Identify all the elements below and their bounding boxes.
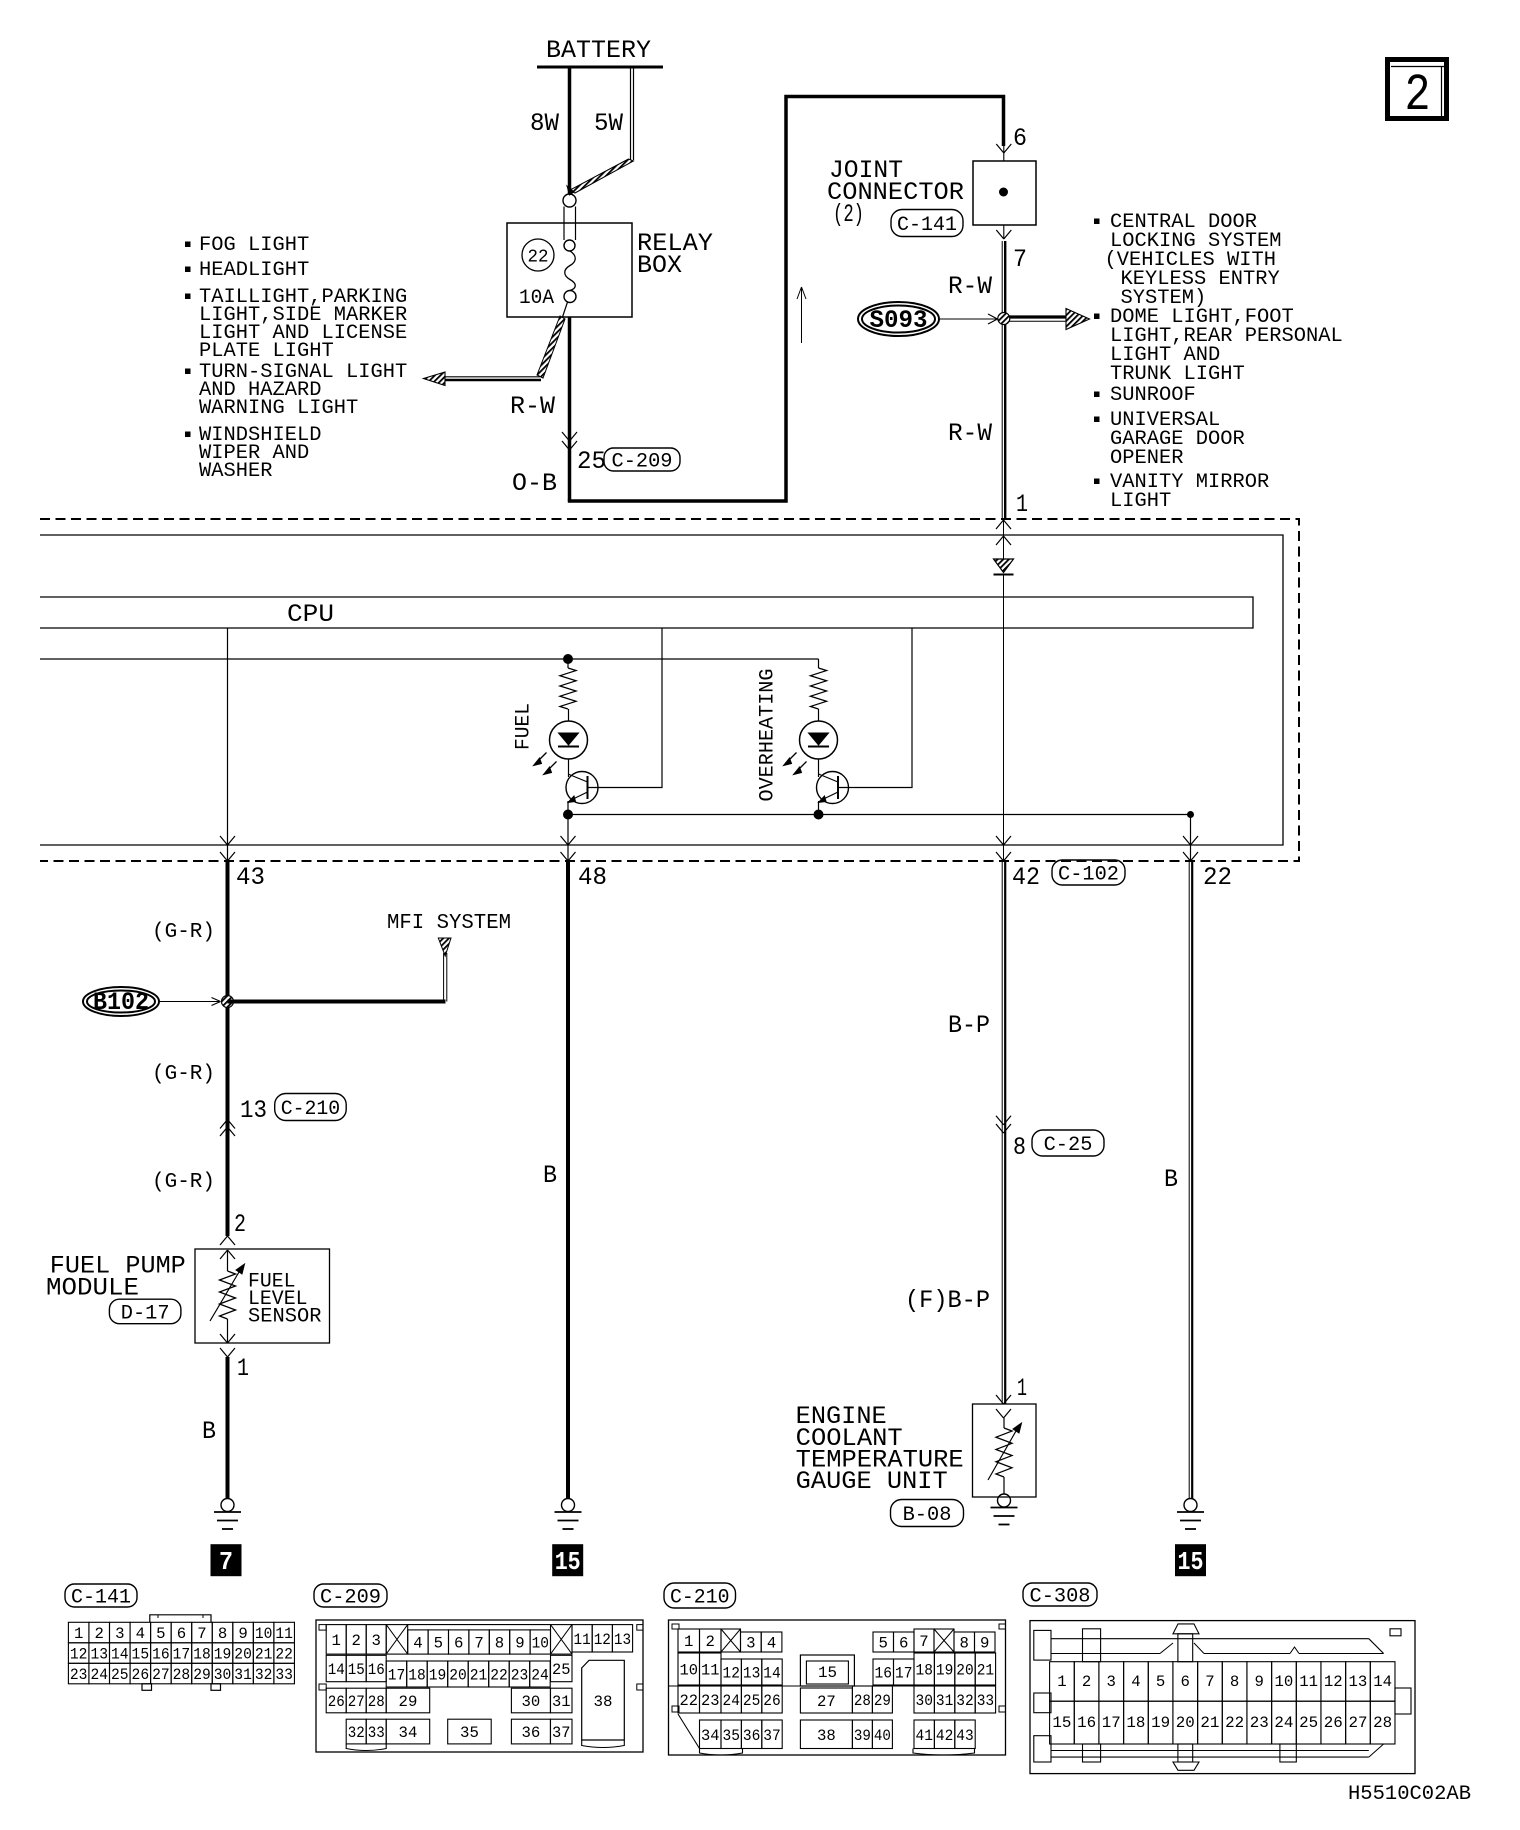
svg-text:R-W: R-W	[948, 419, 992, 448]
wire pin42 inside module	[996, 597, 1011, 861]
svg-text:7: 7	[474, 1635, 483, 1653]
svg-text:25: 25	[552, 1661, 571, 1679]
svg-text:7: 7	[219, 1547, 233, 1577]
svg-text:24: 24	[531, 1667, 549, 1685]
junction node G-R	[222, 996, 234, 1008]
svg-text:27: 27	[817, 1693, 836, 1711]
svg-text:23: 23	[1250, 1714, 1269, 1732]
joint connector labels	[827, 156, 964, 237]
svg-text:33: 33	[977, 1692, 994, 1710]
svg-text:17: 17	[895, 1665, 913, 1683]
svg-text:3: 3	[372, 1632, 381, 1650]
svg-text:GAUGE UNIT: GAUGE UNIT	[796, 1467, 948, 1496]
relay box	[507, 223, 713, 317]
arrow to lighting circuits	[424, 316, 566, 386]
svg-text:18: 18	[193, 1646, 211, 1664]
wire 5W from battery	[567, 69, 634, 196]
wire pin43 inside module	[220, 628, 235, 861]
inline connector 25 C-209	[562, 432, 680, 476]
svg-text:12: 12	[594, 1631, 611, 1649]
OVERHEATING label	[757, 669, 780, 802]
svg-text:22: 22	[275, 1646, 293, 1664]
svg-text:SUNROOF: SUNROOF	[1110, 384, 1196, 407]
FUEL label	[513, 703, 536, 750]
pin 6	[996, 124, 1027, 153]
svg-text:34: 34	[701, 1727, 720, 1745]
svg-text:30: 30	[522, 1693, 541, 1711]
svg-text:36: 36	[743, 1727, 760, 1745]
pin 43	[236, 863, 265, 892]
svg-text:27: 27	[152, 1666, 170, 1684]
svg-text:3: 3	[115, 1625, 124, 1643]
wire G-R pin43 to fuel pump	[152, 861, 228, 1236]
svg-text:35: 35	[723, 1727, 740, 1745]
svg-text:35: 35	[460, 1724, 479, 1742]
svg-text:16: 16	[875, 1665, 893, 1683]
svg-text:13: 13	[743, 1665, 760, 1683]
svg-text:1: 1	[1016, 490, 1028, 519]
svg-text:WASHER: WASHER	[199, 460, 273, 483]
ground fuel pump	[214, 1499, 241, 1530]
svg-text:B: B	[202, 1417, 216, 1446]
svg-text:10: 10	[680, 1662, 699, 1680]
svg-text:BOX: BOX	[637, 251, 682, 280]
svg-text:27: 27	[1348, 1714, 1367, 1732]
svg-text:C-209: C-209	[612, 451, 673, 474]
svg-text:10: 10	[1275, 1673, 1294, 1691]
left load list	[186, 234, 408, 483]
svg-text:HEADLIGHT: HEADLIGHT	[199, 259, 309, 282]
svg-text:30: 30	[214, 1666, 232, 1684]
svg-text:C-308: C-308	[1030, 1586, 1091, 1609]
svg-text:23: 23	[70, 1666, 88, 1684]
svg-text:C-102: C-102	[1058, 864, 1119, 887]
svg-text:18: 18	[916, 1662, 933, 1680]
overheating LED indicator	[784, 709, 838, 775]
svg-text:41: 41	[916, 1727, 933, 1745]
svg-text:15: 15	[555, 1547, 581, 1577]
wire B-P pin42 down	[905, 861, 1005, 1404]
svg-text:11: 11	[1299, 1673, 1318, 1691]
svg-text:31: 31	[936, 1692, 953, 1710]
svg-text:R-W: R-W	[510, 392, 555, 421]
svg-text:12: 12	[723, 1665, 740, 1683]
svg-text:13: 13	[614, 1631, 631, 1649]
svg-text:12: 12	[1324, 1673, 1343, 1691]
svg-text:20: 20	[956, 1662, 973, 1680]
overheating resistor	[811, 659, 827, 709]
wire CPU to fuel transistor base	[588, 628, 663, 788]
diagram code	[1348, 1783, 1471, 1806]
battery	[537, 36, 663, 67]
svg-text:8: 8	[495, 1635, 504, 1653]
svg-text:19: 19	[1151, 1714, 1170, 1732]
pin 1 gauge unit	[1017, 1374, 1027, 1403]
ground ref 7	[211, 1545, 241, 1578]
svg-text:25: 25	[743, 1692, 760, 1710]
engine coolant temperature gauge unit box	[796, 1395, 1036, 1527]
svg-text:31: 31	[234, 1666, 252, 1684]
svg-text:20: 20	[1176, 1714, 1195, 1732]
svg-text:15: 15	[348, 1661, 365, 1679]
svg-text:17: 17	[388, 1667, 406, 1685]
svg-text:4: 4	[1131, 1673, 1140, 1691]
splice B102	[83, 987, 159, 1017]
svg-text:8: 8	[1230, 1673, 1239, 1691]
inline connector 8 C-25	[996, 1116, 1104, 1162]
wire R-W joint connector down	[948, 241, 1005, 314]
svg-text:2: 2	[234, 1210, 246, 1239]
svg-text:43: 43	[236, 863, 265, 892]
ground gauge unit	[991, 1494, 1018, 1525]
svg-text:5W: 5W	[594, 109, 623, 138]
svg-text:2: 2	[1082, 1673, 1091, 1691]
page number box 2	[1388, 60, 1447, 126]
svg-text:23: 23	[701, 1692, 720, 1710]
inline connector 13 C-210	[220, 1094, 346, 1137]
svg-text:H5510C02AB: H5510C02AB	[1348, 1783, 1471, 1806]
svg-text:1: 1	[1017, 1374, 1027, 1403]
wire 8W from battery	[530, 69, 570, 195]
svg-text:24: 24	[1274, 1714, 1293, 1732]
svg-text:38: 38	[817, 1727, 836, 1745]
svg-text:8: 8	[218, 1625, 227, 1643]
svg-text:B: B	[1164, 1165, 1178, 1194]
svg-text:15: 15	[132, 1646, 150, 1664]
wire emitter bus	[568, 814, 1191, 816]
wire R-W fuse down	[510, 317, 570, 501]
svg-text:O-B: O-B	[512, 469, 557, 498]
svg-text:WARNING LIGHT: WARNING LIGHT	[199, 397, 358, 420]
svg-text:22: 22	[1203, 863, 1232, 892]
svg-text:25: 25	[577, 447, 606, 476]
svg-text:34: 34	[399, 1724, 418, 1742]
svg-text:6: 6	[1013, 124, 1027, 153]
fuel LED indicator	[534, 709, 588, 775]
svg-text:14: 14	[1373, 1673, 1392, 1691]
svg-text:22: 22	[1225, 1714, 1244, 1732]
svg-text:15: 15	[1178, 1547, 1204, 1577]
svg-text:2: 2	[1405, 66, 1431, 125]
svg-text:2: 2	[352, 1632, 361, 1650]
svg-text:21: 21	[977, 1662, 994, 1680]
fuel driver transistor	[566, 759, 598, 815]
svg-text:20: 20	[449, 1667, 467, 1685]
svg-text:32: 32	[255, 1666, 273, 1684]
junction node bus corner	[1188, 812, 1194, 818]
svg-text:1: 1	[74, 1625, 83, 1643]
pin 7	[996, 225, 1027, 274]
svg-text:19: 19	[936, 1662, 953, 1680]
svg-text:MODULE: MODULE	[46, 1274, 139, 1303]
svg-text:7: 7	[1013, 245, 1027, 274]
pin 1 fuel pump	[237, 1354, 249, 1383]
ground pin22	[1177, 1499, 1204, 1530]
svg-text:28: 28	[173, 1666, 191, 1684]
diode symbol on R-W feed	[994, 519, 1014, 597]
svg-text:10: 10	[532, 1635, 549, 1653]
svg-text:D-17: D-17	[121, 1302, 170, 1325]
svg-text:10: 10	[255, 1625, 273, 1643]
svg-text:15: 15	[1052, 1714, 1071, 1732]
svg-text:16: 16	[152, 1646, 170, 1664]
pin 42 C-102	[1012, 860, 1125, 892]
svg-text:B-P: B-P	[948, 1011, 990, 1040]
svg-text:18: 18	[1126, 1714, 1145, 1732]
svg-text:36: 36	[522, 1724, 541, 1742]
svg-text:9: 9	[238, 1625, 247, 1643]
svg-text:(G-R): (G-R)	[152, 921, 215, 944]
svg-text:11: 11	[275, 1625, 293, 1643]
wire pin48 inside module	[561, 819, 576, 861]
svg-text:6: 6	[454, 1635, 463, 1653]
junction node R-W	[998, 313, 1010, 325]
svg-text:B-08: B-08	[903, 1504, 952, 1527]
svg-text:28: 28	[1373, 1714, 1392, 1732]
svg-text:LIGHT: LIGHT	[1110, 490, 1171, 513]
svg-text:9: 9	[515, 1635, 524, 1653]
pin 2 fuel pump	[234, 1210, 246, 1239]
svg-text:37: 37	[552, 1724, 571, 1742]
svg-text:13: 13	[1349, 1673, 1368, 1691]
svg-text:4: 4	[413, 1635, 422, 1653]
svg-text:9: 9	[1255, 1673, 1264, 1691]
fuel level sensor	[210, 1250, 322, 1357]
svg-text:14: 14	[763, 1665, 780, 1683]
wire B fuel pump to ground	[202, 1357, 228, 1499]
svg-text:33: 33	[275, 1666, 293, 1684]
svg-text:C-141: C-141	[897, 214, 957, 237]
svg-text:32: 32	[348, 1724, 365, 1742]
svg-text:8W: 8W	[530, 109, 559, 138]
svg-text:6: 6	[1181, 1673, 1190, 1691]
svg-text:FUEL: FUEL	[513, 703, 536, 750]
svg-text:17: 17	[173, 1646, 191, 1664]
svg-text:7: 7	[197, 1625, 206, 1643]
fuel pump module box	[46, 1236, 330, 1343]
svg-text:2: 2	[706, 1633, 715, 1651]
svg-text:S093: S093	[870, 306, 928, 335]
svg-text:38: 38	[594, 1693, 613, 1711]
svg-text:27: 27	[348, 1693, 365, 1711]
svg-text:33: 33	[368, 1724, 385, 1742]
svg-text:25: 25	[111, 1666, 129, 1684]
svg-text:7: 7	[919, 1633, 928, 1651]
svg-text:16: 16	[1077, 1714, 1096, 1732]
svg-text:24: 24	[723, 1692, 740, 1710]
svg-text:29: 29	[874, 1692, 891, 1710]
svg-text:39: 39	[854, 1727, 871, 1745]
svg-text:29: 29	[193, 1666, 211, 1684]
svg-text:5: 5	[434, 1635, 443, 1653]
svg-text:14: 14	[111, 1646, 129, 1664]
svg-text:5: 5	[1156, 1673, 1165, 1691]
svg-text:SENSOR: SENSOR	[248, 1306, 322, 1329]
arrow B102 to junction	[159, 998, 221, 1006]
svg-text:32: 32	[956, 1692, 973, 1710]
connector C-141 pinout	[65, 1584, 294, 1690]
svg-text:19: 19	[429, 1667, 447, 1685]
svg-text:11: 11	[701, 1662, 720, 1680]
svg-text:26: 26	[132, 1666, 150, 1684]
gauge unit sender element	[988, 1418, 1022, 1494]
chevrons pin1 wire into module	[996, 520, 1011, 545]
ground pin48	[555, 1499, 582, 1530]
svg-text:13: 13	[240, 1096, 267, 1125]
svg-text:PLATE LIGHT: PLATE LIGHT	[199, 340, 334, 363]
svg-text:4: 4	[136, 1625, 145, 1643]
svg-text:29: 29	[399, 1693, 418, 1711]
svg-text:OPENER: OPENER	[1110, 447, 1184, 470]
svg-text:(F)B-P: (F)B-P	[905, 1286, 990, 1315]
svg-text:21: 21	[255, 1646, 273, 1664]
svg-text:22: 22	[528, 248, 549, 268]
svg-text:TRUNK LIGHT: TRUNK LIGHT	[1110, 363, 1245, 386]
connector C-308 pinout	[1023, 1583, 1415, 1774]
wire battery feed to joint connector	[568, 97, 1004, 502]
svg-text:28: 28	[368, 1693, 385, 1711]
arrow S093 to junction	[939, 314, 998, 324]
svg-text:26: 26	[763, 1692, 780, 1710]
svg-text:10A: 10A	[519, 287, 554, 310]
arrow to dome light circuits	[1010, 309, 1090, 330]
svg-text:CPU: CPU	[287, 600, 334, 629]
svg-text:43: 43	[956, 1727, 973, 1745]
ETACS module dashed boundary	[40, 519, 1299, 861]
fuse 22 10A	[563, 194, 577, 317]
svg-text:1: 1	[1057, 1673, 1066, 1691]
svg-text:22: 22	[490, 1667, 508, 1685]
svg-text:48: 48	[578, 863, 607, 892]
junction node overheating emitter	[814, 810, 823, 819]
svg-text:31: 31	[552, 1693, 571, 1711]
svg-text:17: 17	[1102, 1714, 1121, 1732]
svg-text:26: 26	[328, 1693, 345, 1711]
wire B pin48 to ground	[543, 861, 568, 1499]
svg-text:1: 1	[237, 1354, 249, 1383]
pin 48	[578, 863, 607, 892]
wire to MFI system	[228, 912, 512, 1002]
svg-text:C-209: C-209	[320, 1587, 381, 1610]
wire O-B label	[512, 469, 557, 498]
svg-text:15: 15	[818, 1664, 837, 1682]
splice S093	[858, 302, 939, 336]
svg-text:1: 1	[684, 1633, 693, 1651]
svg-text:2: 2	[95, 1625, 104, 1643]
overheating driver transistor	[817, 759, 849, 815]
svg-text:MFI SYSTEM: MFI SYSTEM	[387, 912, 511, 935]
svg-text:R-W: R-W	[948, 272, 992, 301]
connector C-210 pinout	[664, 1583, 1006, 1755]
svg-text:19: 19	[214, 1646, 232, 1664]
svg-text:4: 4	[767, 1635, 776, 1653]
svg-text:9: 9	[980, 1635, 989, 1653]
svg-text:OVERHEATING: OVERHEATING	[757, 669, 780, 802]
svg-text:C-210: C-210	[281, 1098, 341, 1121]
svg-text:11: 11	[574, 1631, 591, 1649]
svg-text:22: 22	[680, 1692, 699, 1710]
svg-text:C-25: C-25	[1044, 1134, 1093, 1157]
ground ref 15 left	[553, 1545, 583, 1578]
CPU box	[40, 597, 1253, 629]
svg-text:21: 21	[1200, 1714, 1219, 1732]
wire pin22 inside module	[1183, 815, 1198, 862]
svg-text:8: 8	[1013, 1133, 1026, 1162]
svg-text:B102: B102	[93, 988, 149, 1017]
svg-text:14: 14	[328, 1661, 345, 1679]
svg-text:(G-R): (G-R)	[152, 1063, 215, 1086]
svg-text:28: 28	[854, 1692, 871, 1710]
svg-text:26: 26	[1324, 1714, 1343, 1732]
svg-text:16: 16	[368, 1661, 385, 1679]
svg-text:3: 3	[746, 1635, 755, 1653]
svg-text:7: 7	[1205, 1673, 1214, 1691]
ground ref 15 right	[1176, 1545, 1206, 1578]
svg-text:23: 23	[511, 1667, 529, 1685]
right load list	[1095, 211, 1343, 513]
pin 22	[1203, 863, 1232, 892]
svg-text:C-210: C-210	[670, 1587, 730, 1610]
svg-text:B: B	[543, 1161, 557, 1190]
svg-text:5: 5	[156, 1625, 165, 1643]
svg-text:(G-R): (G-R)	[152, 1171, 215, 1194]
svg-text:3: 3	[1107, 1673, 1116, 1691]
svg-text:12: 12	[70, 1646, 88, 1664]
current direction arrow	[797, 287, 806, 343]
svg-text:20: 20	[234, 1646, 252, 1664]
svg-text:C-141: C-141	[71, 1587, 131, 1610]
svg-text:13: 13	[90, 1646, 108, 1664]
svg-text:40: 40	[874, 1727, 891, 1745]
wire R-W to pin 1	[948, 324, 1028, 519]
svg-text:6: 6	[177, 1625, 186, 1643]
svg-text:1: 1	[332, 1632, 341, 1650]
fuel resistor	[560, 659, 576, 709]
junction node fuel emitter	[564, 810, 573, 819]
svg-text:6: 6	[899, 1635, 908, 1653]
svg-text:5: 5	[879, 1635, 888, 1653]
wire CPU to overheating transistor base	[838, 628, 912, 788]
connector C-209 pinout	[314, 1584, 643, 1752]
joint connector (2) C-141 box	[973, 161, 1036, 225]
svg-text:8: 8	[960, 1635, 969, 1653]
junction node fuel branch	[564, 655, 573, 664]
wire B pin22 to ground	[1164, 861, 1192, 1499]
svg-text:30: 30	[916, 1692, 933, 1710]
svg-text:42: 42	[1012, 863, 1040, 892]
svg-text:24: 24	[90, 1666, 108, 1684]
ETACS module inner box	[40, 535, 1283, 845]
svg-text:BATTERY: BATTERY	[546, 36, 651, 65]
svg-text:25: 25	[1299, 1714, 1318, 1732]
wire CPU supply rail	[40, 658, 819, 660]
svg-text:FOG LIGHT: FOG LIGHT	[199, 234, 309, 257]
svg-text:21: 21	[470, 1667, 488, 1685]
svg-text:(2): (2)	[833, 200, 864, 229]
svg-text:18: 18	[408, 1667, 426, 1685]
svg-text:37: 37	[763, 1727, 780, 1745]
svg-text:42: 42	[936, 1727, 953, 1745]
